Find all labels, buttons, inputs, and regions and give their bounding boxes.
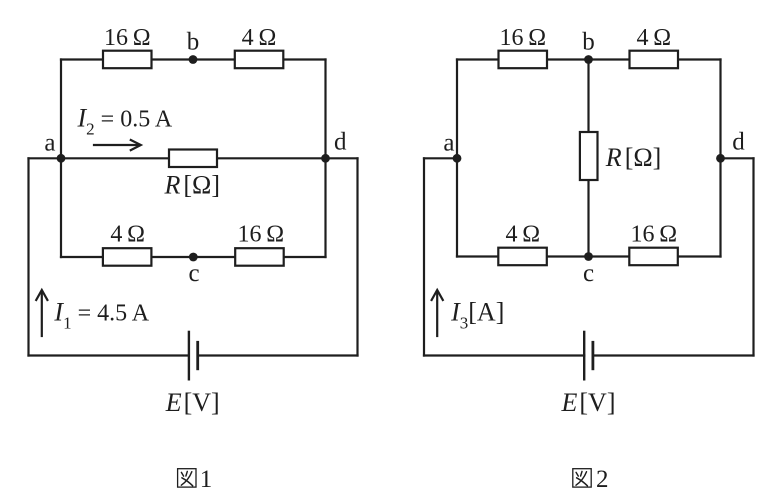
current arrow I2 [94,140,141,151]
resistor 4ohm top right box (fig2) [630,51,679,68]
svg-text:I1 = 4.5 A: I1 = 4.5 A [53,298,149,333]
wire: bottom left to battery [424,354,584,356]
svg-text:4 Ω: 4 Ω [636,25,671,51]
svg-text:R[Ω]: R[Ω] [164,171,221,200]
svg-text:I2 = 0.5 A: I2 = 0.5 A [77,104,173,139]
wire: inner right vertical [324,60,326,258]
node d [321,154,330,163]
current arrow I3 [432,290,443,336]
node b (fig2) [584,55,593,64]
svg-text:a: a [44,130,55,157]
svg-text:c: c [583,260,594,287]
wire: middle vertical b-c through R [587,60,589,257]
svg-text:16 Ω: 16 Ω [499,25,546,51]
resistor R vertical box (fig2) [580,132,598,180]
wire: stub a to outer left [424,157,457,159]
node c [189,253,198,262]
wire: inner left vertical [456,60,458,257]
wire: top branch a-b-d upper [61,58,326,60]
wire: outer right vertical [752,158,754,355]
svg-text:1: 1 [200,466,213,493]
battery E long plate [188,332,190,379]
resistor 16ohm bottom right box (fig2) [629,248,678,266]
wire: stub d to outer right [721,157,754,159]
node b [189,55,198,64]
svg-text:E[V]: E[V] [561,388,616,417]
svg-text:4 Ω: 4 Ω [242,25,277,51]
resistor 16ohm bottom right box [235,248,284,266]
wire: bottom right from battery [593,354,754,356]
caption figure1 [178,466,213,493]
wire: outer left vertical [423,158,425,355]
wire: bottom branch [61,256,326,258]
wire: outer right vertical [356,158,358,355]
caption figure2 [573,466,609,493]
resistor R box [169,150,217,168]
wire: top branch [457,58,721,60]
resistor 4ohm bottom left box [103,248,151,266]
svg-text:d: d [334,129,347,156]
svg-text:E[V]: E[V] [165,388,220,417]
svg-text:2: 2 [596,466,609,493]
svg-text:a: a [443,130,454,157]
svg-text:d: d [732,129,745,156]
resistor 4ohm top right box [235,51,283,68]
node a (fig2) [453,154,462,163]
svg-text:4 Ω: 4 Ω [110,222,145,248]
node a [57,154,66,163]
resistor 16ohm top left box [103,51,152,68]
resistor 4ohm bottom left box (fig2) [498,248,547,266]
battery E long plate (fig2) [583,332,585,379]
node d (fig2) [716,154,725,163]
battery E short plate (fig2) [592,342,595,369]
svg-text:4 Ω: 4 Ω [505,222,540,248]
wire: bottom right from battery [198,354,358,356]
svg-text:16 Ω: 16 Ω [630,222,677,248]
svg-text:16 Ω: 16 Ω [104,25,151,51]
wire: inner right vertical [719,60,721,257]
svg-text:I3[A]: I3[A] [450,298,504,333]
svg-text:16 Ω: 16 Ω [237,222,284,248]
svg-text:b: b [582,29,595,56]
svg-text:b: b [187,29,200,56]
battery E short plate [196,342,199,369]
wire: inner left vertical (a up to top branch, down to bottom branch) [60,60,62,258]
svg-text:c: c [188,260,199,287]
wire: middle branch a-d [29,157,358,159]
wire: bottom branch [457,255,721,257]
resistor 16ohm top left box (fig2) [499,51,548,68]
wire: outer left vertical [27,158,29,355]
svg-text:R[Ω]: R[Ω] [605,143,662,172]
wire: bottom left to battery [29,354,189,356]
node c (fig2) [584,252,593,261]
current arrow I1 [36,290,47,336]
